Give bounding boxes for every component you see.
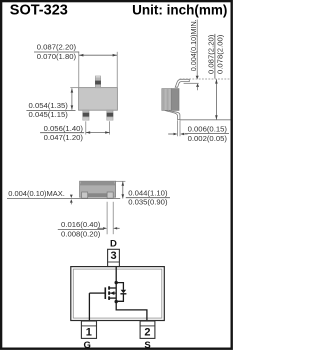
bottom right pin (pin 2 lead) xyxy=(107,110,114,120)
package body front view xyxy=(79,88,118,111)
border frame xyxy=(1,1,232,349)
source contact wire xyxy=(110,297,117,299)
svg-text:0.006(0.15): 0.006(0.15) xyxy=(188,125,228,134)
pin pitch dimension line xyxy=(86,132,110,134)
package outline rect (outer) xyxy=(71,267,165,321)
lead bottom reference line xyxy=(184,82,199,84)
rotated fraction line xyxy=(214,34,216,79)
svg-text:Unit: inch(mm): Unit: inch(mm) xyxy=(132,3,227,18)
lead width arrows xyxy=(97,227,103,229)
lead thickness arrows xyxy=(168,133,174,135)
gate wire down to pin 1 xyxy=(88,293,90,321)
svg-text:2: 2 xyxy=(144,326,150,338)
end view bottom center strip xyxy=(88,193,107,197)
body diode cathode bar xyxy=(120,293,126,295)
lead thickness extension lines xyxy=(177,120,179,136)
svg-text:0.008(0.20): 0.008(0.20) xyxy=(61,230,101,239)
drain vertical to channel xyxy=(115,283,117,302)
gate lead wire xyxy=(89,292,104,294)
body contact wire with arrow xyxy=(110,292,116,294)
0.004(0.10)MIN leader and arrows xyxy=(196,20,198,77)
pin box 1 xyxy=(81,321,96,338)
svg-text:SOT-323: SOT-323 xyxy=(10,3,68,19)
svg-text:S: S xyxy=(144,340,150,350)
svg-text:0.078(2.00): 0.078(2.00) xyxy=(215,34,224,74)
seating plane line xyxy=(7,198,120,200)
svg-text:0.035(0.90): 0.035(0.90) xyxy=(128,198,168,207)
width dimension line xyxy=(79,54,117,56)
drain contact wire xyxy=(110,287,117,289)
pin pitch extension lines xyxy=(85,121,87,134)
lead width extension lines xyxy=(106,202,108,234)
svg-text:0.087(2.20): 0.087(2.20) xyxy=(206,34,215,74)
end view top chamfer xyxy=(80,181,116,185)
side overall length dimension line xyxy=(215,79,217,119)
svg-text:3: 3 xyxy=(110,250,116,262)
body diode triangle xyxy=(121,290,127,293)
bottom left pin (pin 1 lead) xyxy=(83,110,90,120)
drain wire from box 3 xyxy=(115,267,117,283)
body diode branch bottom xyxy=(116,294,123,301)
standoff arrows xyxy=(70,195,73,198)
end view body xyxy=(80,181,116,197)
height extension line xyxy=(116,180,126,182)
svg-text:0.047(1.20): 0.047(1.20) xyxy=(44,133,84,142)
height dimension line xyxy=(122,181,124,198)
side view body xyxy=(162,89,179,111)
svg-text:0.002(0.05): 0.002(0.05) xyxy=(188,134,228,143)
side view top lead xyxy=(175,79,189,87)
svg-text:0.016(0.40): 0.016(0.40) xyxy=(61,220,101,229)
bottom reference line xyxy=(180,119,231,121)
svg-text:0.045(1.15): 0.045(1.15) xyxy=(29,110,69,119)
end view right lead xyxy=(107,192,113,198)
datum dashed line (lead top plane) xyxy=(180,78,231,80)
svg-text:0.044(1.10): 0.044(1.10) xyxy=(128,188,168,197)
pin box 3 xyxy=(108,249,120,266)
width dimension extension lines xyxy=(78,52,80,87)
svg-text:0.056(1.40): 0.056(1.40) xyxy=(44,124,84,133)
MOSFET gate bar xyxy=(104,287,106,299)
svg-text:0.054(1.35): 0.054(1.35) xyxy=(29,101,69,110)
pin box 2 xyxy=(140,321,155,338)
svg-text:D: D xyxy=(110,239,117,250)
node dot source xyxy=(115,300,118,303)
svg-text:0.004(0.10)MIN.: 0.004(0.10)MIN. xyxy=(189,19,198,71)
svg-text:0.004(0.10)MAX.: 0.004(0.10)MAX. xyxy=(8,189,65,198)
body diode branch top xyxy=(116,283,123,290)
side view bottom lead xyxy=(165,110,180,119)
end view left lead xyxy=(82,192,88,198)
source wire to pin 2 xyxy=(116,302,147,321)
MOSFET channel bar segments xyxy=(108,286,110,289)
svg-text:0.087(2.20): 0.087(2.20) xyxy=(37,43,77,52)
package outline rect (inner) xyxy=(73,269,162,318)
svg-text:1: 1 xyxy=(86,326,92,338)
height dimension line xyxy=(71,88,73,109)
node dot drain xyxy=(115,281,118,284)
svg-text:0.070(1.80): 0.070(1.80) xyxy=(37,52,77,61)
top pin (pin 3 lead) xyxy=(95,76,101,88)
svg-text:G: G xyxy=(84,340,91,350)
